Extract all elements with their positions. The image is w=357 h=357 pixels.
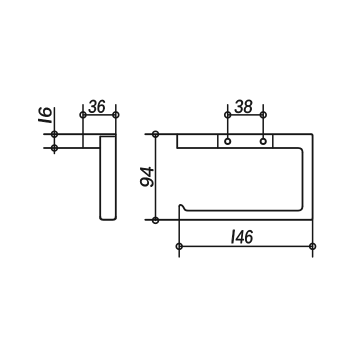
side view: bar top inner edge xyxy=(100,136,114,138)
dimension 36: left terminator circle xyxy=(80,112,86,118)
dimension 94: value label (rotated) xyxy=(140,167,153,187)
dimension 38: right extension line xyxy=(262,105,264,139)
front view: rail bottom / inner top edge xyxy=(177,148,302,152)
front view: mount plate left division line xyxy=(217,134,219,148)
side view: bar bottom edge xyxy=(100,217,116,220)
front view: outer right edge xyxy=(312,136,314,218)
side view: bar left edge xyxy=(99,137,101,219)
dimension 38: dimension line xyxy=(228,114,264,116)
front view: inner right edge xyxy=(302,152,304,206)
dimension 16: dimension line xyxy=(53,108,55,154)
dimension 36: dimension line xyxy=(83,114,116,116)
front view: mount plate right division line xyxy=(272,134,274,148)
dimension 146: dimension line xyxy=(179,245,312,247)
front view: rail left end cap xyxy=(176,134,178,148)
front view: outer top edge with 94 extension xyxy=(145,133,311,135)
dimension 36: right terminator circle xyxy=(113,112,119,118)
dimension 94: top terminator circle xyxy=(153,131,159,137)
side view: bar right edge xyxy=(115,134,117,218)
dimension 16: top terminator circle xyxy=(52,131,58,137)
side view: arm top edge xyxy=(44,133,116,135)
dimension 38: value label xyxy=(235,100,252,113)
dimension 38: left extension line xyxy=(227,105,229,139)
side view: arm bottom edge xyxy=(44,147,100,149)
dimension 94: bottom terminator circle xyxy=(153,218,159,224)
dimension 146: right extension line xyxy=(312,220,314,257)
front view: hook left edge / 146 left extension line xyxy=(178,206,180,257)
front view: left hook curve xyxy=(179,205,188,211)
dimension 146: right terminator circle xyxy=(310,244,316,250)
dimension 36: value label xyxy=(89,100,105,113)
dimension 146: left terminator circle xyxy=(176,244,182,250)
front view: inner bottom edge with corner xyxy=(188,206,303,210)
dimension 16: value label (rotated) xyxy=(38,107,51,122)
front view: outer bottom edge with 94 extension xyxy=(145,219,311,221)
front view: left screw hole xyxy=(225,139,230,144)
dimension 146: value label xyxy=(232,230,253,244)
dimension 16: bottom terminator circle xyxy=(52,145,58,151)
dimension 94: dimension line xyxy=(155,134,157,220)
dimension 38: left terminator circle xyxy=(225,112,231,118)
dimension 38: right terminator circle xyxy=(260,112,266,118)
dimension 36: left extension line xyxy=(82,105,84,148)
front view: outer bottom-right corner xyxy=(311,218,313,220)
front view: right screw hole xyxy=(261,139,266,144)
front view: outer top-right corner xyxy=(311,134,313,136)
dimension 36: right extension line xyxy=(115,105,117,135)
